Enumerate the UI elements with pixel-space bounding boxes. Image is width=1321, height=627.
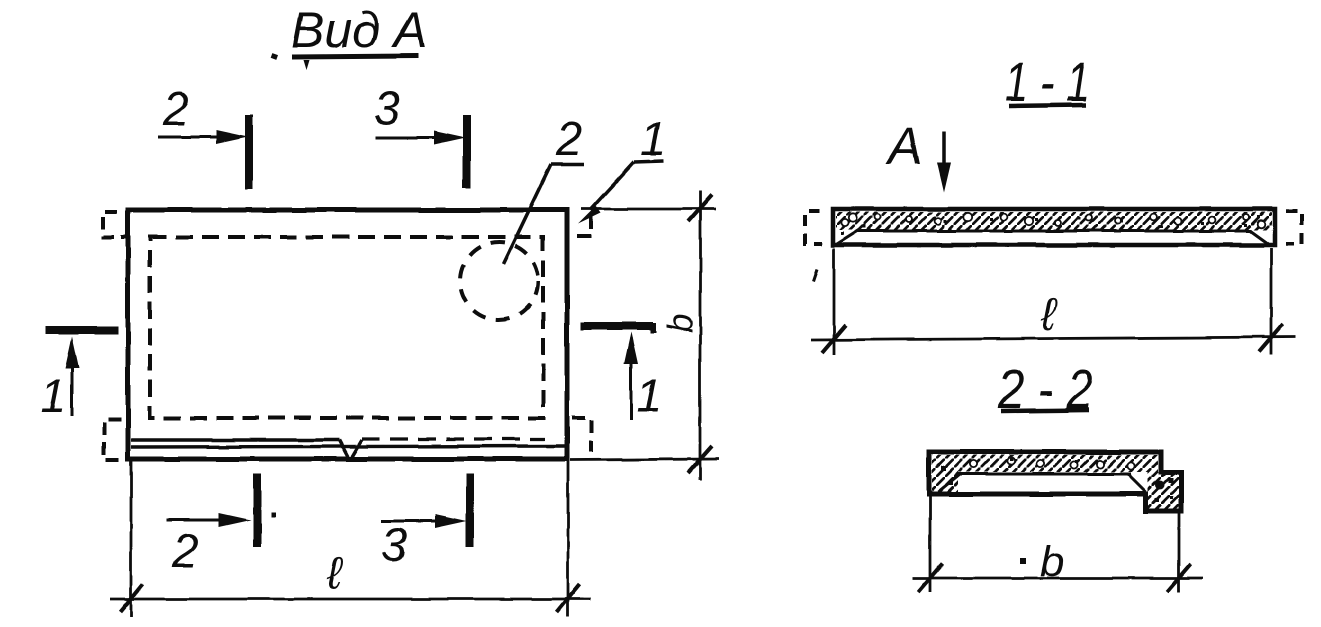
- svg-text:b: b: [1040, 538, 1064, 586]
- small mark: [813, 269, 817, 281]
- section marker 1 left: [40, 330, 118, 422]
- dashed corner bracket bottom-right: [572, 418, 591, 452]
- title Вид А: [270, 2, 427, 70]
- title 1-1: [1005, 50, 1090, 113]
- dashed corner bracket top-right: [577, 215, 591, 236]
- dimension b plan: dim line, ticks, label: [650, 191, 712, 480]
- section 1-1 hatch band: [836, 212, 1272, 235]
- svg-text:ℓ: ℓ: [1040, 288, 1058, 340]
- opening circle (dashed): [460, 242, 538, 320]
- section marker 2 top: [158, 82, 249, 189]
- svg-text:1: 1: [640, 112, 666, 165]
- dimension l plan: dim line and ticks: [110, 547, 591, 612]
- dimension b section 2-2: [912, 496, 1203, 592]
- svg-text:2: 2: [171, 524, 198, 577]
- section marker 2 bottom: [166, 474, 276, 577]
- section 1-1 dashed end brackets: [805, 211, 1302, 244]
- svg-text:b: b: [661, 314, 700, 333]
- bottom rib lines with V notch: [131, 439, 565, 457]
- section 1-1 slab outline: [833, 209, 1275, 245]
- dimension b plan: extension lines: [570, 209, 719, 460]
- section marker 3 bottom: [381, 474, 470, 571]
- svg-text:ℓ: ℓ: [326, 547, 344, 599]
- dimension l plan: extension lines: [131, 460, 568, 617]
- title 2-2: [997, 357, 1093, 420]
- main panel outline: [128, 210, 567, 459]
- dimension l section 1-1: [811, 248, 1296, 355]
- leader label 1 top right: [578, 112, 666, 224]
- svg-text:3: 3: [381, 518, 407, 571]
- svg-text:1: 1: [636, 369, 662, 422]
- view arrow A: [885, 118, 951, 192]
- svg-text:2: 2: [555, 112, 582, 165]
- section 2-2 hatch band: [932, 455, 1179, 509]
- svg-text:Вид А: Вид А: [291, 2, 427, 58]
- leader to circle with label 2: [503, 112, 584, 264]
- section 2-2 outline: [929, 452, 1181, 511]
- dashed corner bracket bottom-left: [104, 419, 124, 460]
- svg-text:2: 2: [162, 82, 189, 135]
- dashed corner bracket top-left: [103, 212, 126, 237]
- svg-text:3: 3: [374, 81, 400, 134]
- svg-text:1: 1: [40, 369, 66, 422]
- svg-text:A: A: [885, 118, 923, 176]
- inner dashed outline: [150, 237, 543, 418]
- section marker 1 right: [581, 326, 662, 422]
- section marker 3 top: [374, 81, 467, 188]
